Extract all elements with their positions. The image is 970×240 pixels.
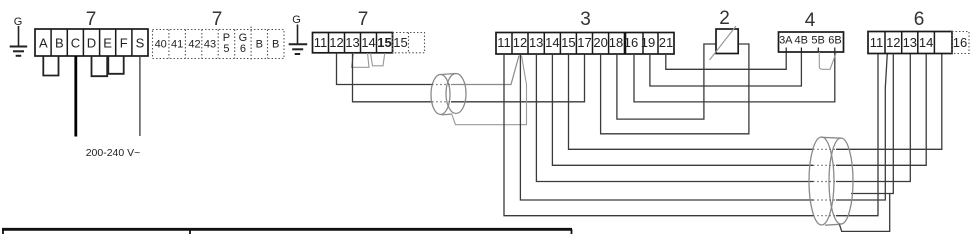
svg-text:13: 13 <box>529 35 543 50</box>
label 7 (dashed block TB2) <box>212 9 223 30</box>
wire block6-12 straight to loop line <box>851 54 893 194</box>
label 7 (terminal block TB1) <box>86 9 97 30</box>
terminal block TB3 (11-15) <box>313 33 393 53</box>
wire shield drain to ferrite F1 <box>452 56 527 125</box>
svg-text:B: B <box>272 39 279 51</box>
svg-text:7: 7 <box>212 9 223 30</box>
svg-text:4: 4 <box>805 10 816 31</box>
svg-text:3: 3 <box>580 9 591 30</box>
svg-text:15: 15 <box>393 35 407 50</box>
wire block3-16 to block4-6B <box>634 52 835 102</box>
wire loop under ferrite F2 <box>840 194 890 231</box>
svg-text:14: 14 <box>361 35 375 50</box>
jumper E-F <box>108 56 123 74</box>
wire block3-12 to block6-12a (L4 through ferrite F2) <box>520 54 887 201</box>
wire block3-11 to block6-11 (L5 through ferrite F2) <box>504 54 878 216</box>
label 7 (terminal block TB3) <box>358 9 369 30</box>
ferrite core F1 <box>431 74 466 115</box>
ground G1 symbol <box>10 26 28 56</box>
svg-text:15: 15 <box>377 35 391 50</box>
wire S <box>139 56 141 136</box>
wire TB3-12 to block3-12 (through ferrite F1) <box>337 53 520 85</box>
ferrite core F2 <box>809 137 853 225</box>
svg-text:B: B <box>256 39 263 51</box>
terminal block 6 dashed cell 16 <box>952 32 969 54</box>
jumper block4 5B-6B <box>819 52 836 69</box>
svg-text:12: 12 <box>886 35 900 50</box>
jumper TB3 14-15 <box>371 53 385 66</box>
svg-text:11: 11 <box>870 35 884 50</box>
svg-text:13: 13 <box>345 35 359 50</box>
ground G2 symbol <box>289 25 308 55</box>
label 3 (block 3) <box>580 9 591 30</box>
label 200-240V <box>86 147 141 159</box>
ground G2 label <box>292 14 301 26</box>
svg-text:4B: 4B <box>794 35 807 47</box>
svg-text:2: 2 <box>719 8 730 29</box>
svg-text:13: 13 <box>903 35 917 50</box>
terminal block 3 <box>496 33 674 55</box>
svg-text:E: E <box>103 36 112 51</box>
svg-text:15: 15 <box>561 35 575 50</box>
wire block3-18 to sensor2 left <box>617 44 716 119</box>
svg-text:11: 11 <box>314 35 328 50</box>
svg-text:41: 41 <box>171 39 183 51</box>
svg-text:7: 7 <box>358 9 369 30</box>
terminal block TB1 (A-S) <box>35 29 148 56</box>
svg-text:A: A <box>39 36 48 51</box>
svg-text:6: 6 <box>914 9 925 30</box>
svg-text:43: 43 <box>204 39 216 51</box>
svg-text:F: F <box>120 36 128 51</box>
svg-text:12: 12 <box>513 35 527 50</box>
terminal block 4 <box>779 32 844 52</box>
svg-text:5B: 5B <box>811 35 824 47</box>
terminal block 6 <box>868 32 952 54</box>
svg-text:C: C <box>71 36 80 51</box>
svg-text:16: 16 <box>953 35 967 50</box>
sensor 2 (thermistor box) <box>710 26 739 60</box>
svg-text:42: 42 <box>188 39 200 51</box>
label 4 (block 4) <box>805 10 816 31</box>
svg-text:11: 11 <box>497 35 511 50</box>
wire block3-20 to sensor2 right <box>601 44 749 134</box>
svg-text:6: 6 <box>240 43 246 55</box>
svg-text:16: 16 <box>624 35 638 50</box>
svg-text:21: 21 <box>659 35 673 50</box>
wire block3-13 to block6-13 (L3 through ferrite F2) <box>536 54 910 182</box>
svg-text:6B: 6B <box>828 35 841 47</box>
wire TB3-13 to block3-17 (through ferrite F1) <box>353 53 585 102</box>
wire block3-15 to block6-15 (L1 through ferrite F2) <box>569 54 942 150</box>
label 6 (block 6) <box>914 9 925 30</box>
terminal block TB2 (dashed 40-B) <box>153 27 285 62</box>
table divider <box>189 229 191 234</box>
jumper D-E <box>92 56 108 76</box>
svg-text:3A: 3A <box>779 35 793 47</box>
wire block3-21 to block4-3A <box>666 52 786 69</box>
svg-text:5: 5 <box>223 43 229 55</box>
svg-text:7: 7 <box>86 9 97 30</box>
table top border <box>2 228 572 231</box>
svg-text:G: G <box>292 14 301 26</box>
table left border <box>2 229 4 234</box>
svg-text:19: 19 <box>641 35 655 50</box>
jumper TB3 13-14 <box>352 53 370 67</box>
svg-text:200-240 V~: 200-240 V~ <box>86 147 141 159</box>
svg-text:18: 18 <box>609 35 623 50</box>
svg-text:12: 12 <box>329 35 343 50</box>
wire block3-14 to block6-14 (L2 through ferrite F2) <box>552 54 926 166</box>
table right border <box>571 229 573 234</box>
svg-text:14: 14 <box>919 35 933 50</box>
svg-text:20: 20 <box>593 35 607 50</box>
svg-text:D: D <box>87 36 96 51</box>
ground G1 label <box>14 16 23 28</box>
svg-text:14: 14 <box>545 35 559 50</box>
jumper A-B <box>43 56 58 76</box>
svg-text:17: 17 <box>577 35 591 50</box>
wire block3-19 to block4-4B <box>650 52 802 86</box>
svg-text:40: 40 <box>155 39 167 51</box>
terminal block TB3 dashed extension <box>393 33 425 53</box>
label 2 (sensor) <box>719 8 730 29</box>
svg-text:S: S <box>136 36 145 51</box>
wire C power (thick) <box>74 56 77 137</box>
svg-text:B: B <box>55 36 64 51</box>
